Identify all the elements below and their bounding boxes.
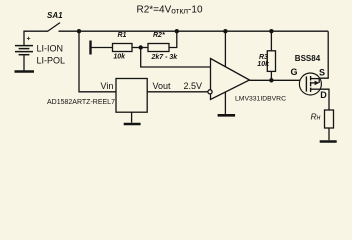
wire rail down to regulator Vin [79, 31, 116, 92]
resistor R1 [113, 44, 133, 52]
svg-text:10k: 10k [113, 53, 126, 60]
svg-text:LI-ION: LI-ION [37, 43, 64, 53]
wire R1 to R2* [132, 47, 148, 49]
op-amp U2 LMV331 [211, 59, 250, 100]
battery plus sign [27, 37, 30, 40]
wire op-amp output to gate [250, 79, 307, 81]
node junction V+/rail [223, 29, 227, 33]
node junction R2*/rail [175, 29, 179, 33]
svg-text:D: D [320, 90, 327, 100]
transistor Q1 BSS84 [299, 73, 321, 95]
op-amp inverting input circle [208, 90, 212, 94]
svg-text:LI-POL: LI-POL [37, 55, 66, 65]
svg-text:R3: R3 [259, 54, 268, 61]
svg-text:G: G [291, 67, 298, 77]
node junction R3/rail [269, 29, 273, 33]
svg-text:2k7 - 3k: 2k7 - 3k [151, 54, 179, 61]
resistor R3 [267, 51, 275, 72]
svg-text:BSS84: BSS84 [295, 54, 321, 63]
svg-text:R1: R1 [118, 32, 127, 39]
wire drain to load [322, 89, 330, 110]
resistor R2* [148, 44, 169, 52]
terminal bar R1 left [89, 41, 91, 55]
wire R2* to rail [169, 31, 177, 47]
wire R3 to output node [270, 71, 272, 80]
node junction output/R3 [269, 78, 273, 82]
wire Vout 2.5V to op-amp inverting input [147, 91, 208, 93]
ground battery [15, 70, 35, 73]
svg-text:2.5V: 2.5V [184, 81, 203, 91]
wire terminal to R1 [92, 47, 113, 49]
svg-text:R2*: R2* [153, 32, 165, 39]
svg-text:AD1582ARTZ-REEL7: AD1582ARTZ-REEL7 [47, 99, 115, 106]
svg-text:SA1: SA1 [47, 11, 63, 20]
ground op-amp [218, 114, 236, 117]
svg-text:10k: 10k [257, 61, 270, 68]
wire battery top to switch [24, 31, 48, 45]
wire regulator ground [131, 112, 133, 122]
resistor Rn load [325, 110, 334, 128]
svg-text:Vin: Vin [101, 81, 114, 91]
ground load [320, 140, 337, 143]
wire main positive rail [59, 30, 329, 32]
node junction switch/regulator [77, 29, 81, 33]
wire Rn to ground [328, 128, 330, 140]
svg-text:R2*=4Vоткл-10: R2*=4Vоткл-10 [137, 5, 203, 16]
svg-text:Rн: Rн [311, 112, 321, 122]
battery G1 plates [15, 46, 33, 55]
svg-text:Vout: Vout [153, 81, 172, 91]
ground regulator [124, 123, 141, 126]
wire rail to R3 [270, 31, 272, 51]
node divider tap junction [139, 45, 143, 49]
wire source to rail [319, 31, 328, 78]
wire op-amp V- to ground [224, 92, 226, 114]
regulator U1 box [116, 79, 147, 113]
svg-text:S: S [319, 67, 325, 77]
svg-text:LMV331IDBVRC: LMV331IDBVRC [235, 96, 286, 103]
wire battery negative [23, 55, 25, 71]
switch SA1 blade [48, 23, 61, 32]
wire op-amp V+ supply from rail [224, 31, 226, 67]
wire divider tap to op-amp input [141, 48, 211, 68]
